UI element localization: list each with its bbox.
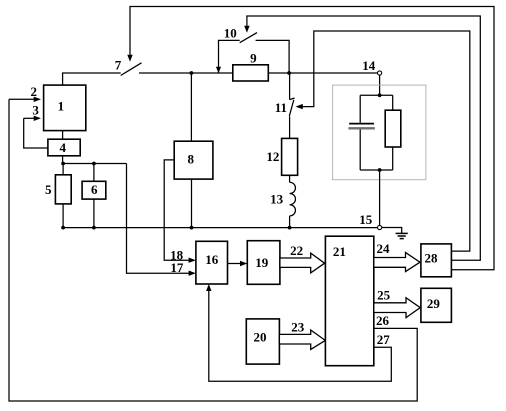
wire main line down to block 8 <box>190 73 192 141</box>
feedback line 27 into block16 bottom <box>209 288 391 382</box>
arrowhead down onto main line at switch10 branch <box>216 67 221 73</box>
svg-text:14: 14 <box>362 58 376 73</box>
feedback line C block28 to switch 7 <box>130 7 494 270</box>
svg-text:3: 3 <box>32 103 39 118</box>
wire block1 top to main line <box>63 73 121 85</box>
wire RC bottom to node 15 <box>379 170 381 225</box>
big arrow 23 <box>279 319 325 349</box>
block 19 <box>247 241 280 285</box>
svg-text:2: 2 <box>30 84 37 99</box>
RC top wire <box>360 94 393 96</box>
resistor 12 <box>266 138 297 175</box>
svg-text:24: 24 <box>377 241 391 256</box>
svg-text:19: 19 <box>255 255 269 270</box>
capacitor branch <box>348 95 374 170</box>
arrow block16 to block19 <box>228 261 248 266</box>
svg-text:4: 4 <box>60 140 67 155</box>
block 9 <box>233 50 268 81</box>
svg-text:23: 23 <box>291 319 305 334</box>
big arrow 24 <box>374 241 420 272</box>
block 6 <box>82 164 106 228</box>
wire block8 bottom to rail <box>191 179 193 228</box>
block 28 <box>421 244 452 277</box>
svg-text:16: 16 <box>205 252 219 267</box>
feedback loop 26: left vertical and bottom wire <box>9 99 417 401</box>
resistor branch in RC box <box>385 95 401 170</box>
feedback line B block28 to switch 10 <box>247 16 480 260</box>
input 2 arrow into block 1 <box>9 84 41 102</box>
svg-text:25: 25 <box>377 287 391 302</box>
ground <box>382 228 408 239</box>
wire block8 left stub down to input 18 <box>164 160 192 260</box>
svg-text:17: 17 <box>170 260 184 275</box>
svg-text:12: 12 <box>266 149 279 164</box>
block 16 <box>196 241 228 284</box>
block 1 <box>44 85 86 131</box>
svg-text:1: 1 <box>58 98 65 113</box>
RC bottom wire <box>360 169 393 171</box>
wire loop from block 4 to input 3 <box>24 118 48 148</box>
svg-text:5: 5 <box>45 182 52 197</box>
svg-text:9: 9 <box>250 50 257 65</box>
svg-text:10: 10 <box>224 25 237 40</box>
arrowhead input 17 <box>189 271 196 276</box>
block 20 <box>246 319 279 364</box>
svg-text:28: 28 <box>425 251 439 266</box>
block 21 <box>325 236 373 366</box>
wire block4 down and distribution line <box>63 156 127 164</box>
svg-text:21: 21 <box>333 244 346 259</box>
inductor 13 <box>270 175 295 227</box>
junction dot right of switch10 <box>287 71 291 75</box>
node junction at block8 top <box>190 71 194 75</box>
svg-text:8: 8 <box>187 152 194 167</box>
gray enclosure box <box>333 85 426 180</box>
block 29 <box>421 288 452 322</box>
wire from distribution line to input 17 <box>127 164 192 274</box>
input 3 arrow into block 1 <box>24 103 41 121</box>
switch 10 <box>240 33 289 73</box>
svg-text:13: 13 <box>270 192 284 207</box>
svg-text:6: 6 <box>91 182 98 197</box>
wire block1 to block4 <box>62 131 64 140</box>
svg-text:20: 20 <box>254 329 267 344</box>
arrowhead input 18 <box>189 258 196 263</box>
big arrow 25 <box>374 287 420 317</box>
bottom rail to node 15 <box>62 227 377 229</box>
svg-text:22: 22 <box>290 243 303 258</box>
node 14 <box>362 58 382 75</box>
block 8 <box>174 141 213 179</box>
switch 10 branch left vertical <box>219 40 240 73</box>
block 4 <box>48 139 80 156</box>
feedback line A block28 to switch 11 <box>300 31 470 251</box>
wire node14 down into RC box <box>379 75 381 95</box>
svg-text:27: 27 <box>377 332 391 347</box>
svg-text:15: 15 <box>359 212 373 227</box>
svg-text:11: 11 <box>275 100 287 115</box>
switch 7 <box>121 63 233 76</box>
block 5 <box>45 164 71 228</box>
svg-text:26: 26 <box>376 313 390 328</box>
switch 11 <box>275 73 295 138</box>
svg-text:7: 7 <box>115 58 122 73</box>
big arrow 22 <box>280 243 325 273</box>
node 15 <box>359 212 382 230</box>
wire box9 to node 14 <box>268 72 377 74</box>
svg-text:29: 29 <box>427 296 441 311</box>
